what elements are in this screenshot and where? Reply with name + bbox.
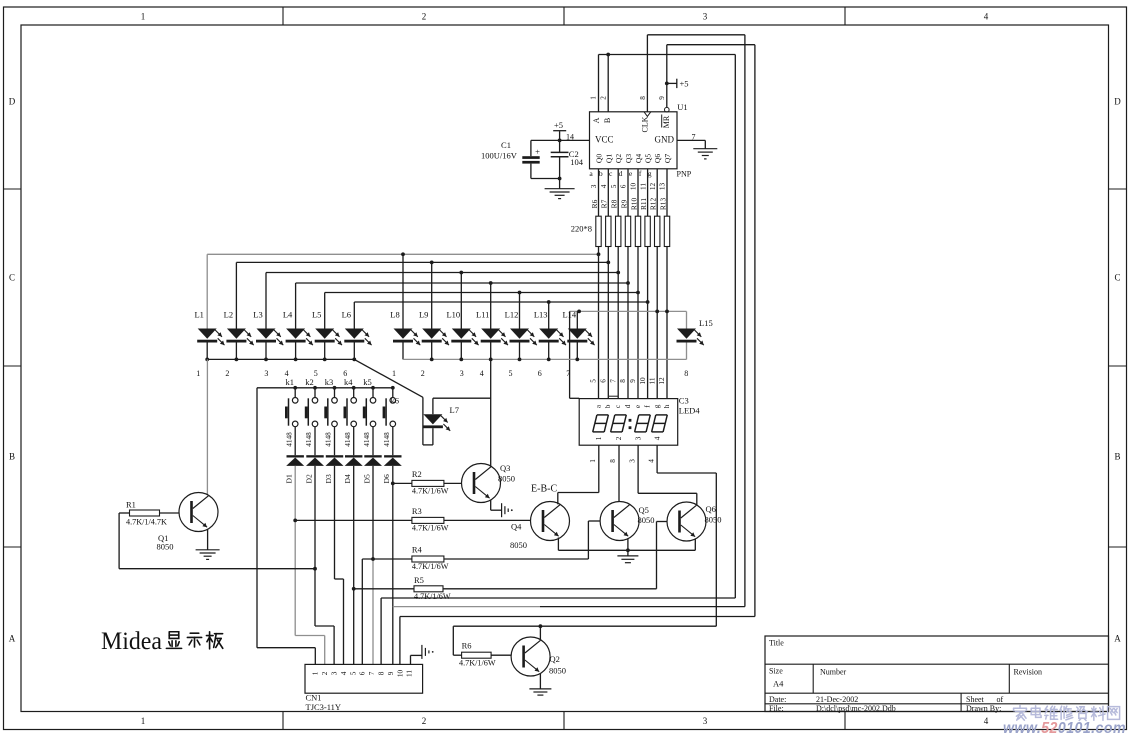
svg-text:U1: U1 <box>677 102 687 112</box>
wire net serial A-B top <box>599 54 736 56</box>
svg-text:8050: 8050 <box>705 514 722 524</box>
junction ground C1 C2 <box>558 177 562 181</box>
wire Q1 emitter to ground <box>207 529 209 550</box>
svg-text:4.7K/1/6W: 4.7K/1/6W <box>414 592 451 601</box>
op-amp U1 shift-register box <box>590 112 678 169</box>
switch k4 <box>344 377 357 455</box>
svg-text:10: 10 <box>630 183 638 191</box>
svg-text:2: 2 <box>321 671 329 675</box>
svg-text:R8: R8 <box>610 199 619 208</box>
diode D2 4148 <box>304 432 324 484</box>
LED L2 <box>224 262 254 359</box>
wire right vertical CLK to pin9 line <box>744 35 746 607</box>
svg-text:3: 3 <box>264 369 268 378</box>
svg-text:2: 2 <box>421 369 425 378</box>
wire display pin1 to Q4 collector <box>598 445 600 492</box>
svg-text:L8: L8 <box>390 310 399 320</box>
svg-text:Q2: Q2 <box>614 154 623 163</box>
diode D6 4148 <box>382 432 402 484</box>
svg-text:6: 6 <box>620 184 628 188</box>
wire segment net b horizontal <box>236 261 608 263</box>
svg-text:R6: R6 <box>462 641 472 651</box>
svg-text:9: 9 <box>387 671 395 675</box>
power +5 at MR <box>665 82 669 86</box>
svg-text:of: of <box>997 695 1004 704</box>
wire segment net e horizontal <box>325 292 638 294</box>
LED L15 <box>677 311 713 359</box>
junction Q2 collector <box>539 624 543 628</box>
svg-text:c: c <box>614 405 622 408</box>
svg-text:Q3: Q3 <box>624 154 633 163</box>
svg-text:Q6: Q6 <box>653 154 662 163</box>
svg-text:4.7K/1/6W: 4.7K/1/6W <box>459 659 496 668</box>
wire display pin4 long route <box>656 445 658 473</box>
wire segment net g-h horizontal line7 <box>570 310 687 312</box>
LED L1 <box>194 254 224 359</box>
LED L13 <box>534 302 566 359</box>
display digit 8 third <box>639 414 651 416</box>
transistor Q1 <box>157 493 219 552</box>
svg-text:2: 2 <box>422 716 427 726</box>
wire display pin3 to Q6 collector <box>637 445 639 493</box>
svg-text:4.7K/1/6W: 4.7K/1/6W <box>412 487 449 496</box>
svg-text:Q4: Q4 <box>511 522 522 532</box>
switch k2 <box>305 377 318 455</box>
svg-text:4148: 4148 <box>325 432 333 447</box>
svg-text:A: A <box>9 634 16 644</box>
svg-text:Q0: Q0 <box>595 154 604 163</box>
wire emitter bus Q4 Q5 Q6 <box>557 538 559 551</box>
svg-text:8: 8 <box>684 369 688 378</box>
svg-text:k2: k2 <box>305 377 314 387</box>
svg-text:R6: R6 <box>590 199 599 208</box>
svg-text:Q2: Q2 <box>550 654 560 664</box>
wire R3 to Q4 base <box>444 519 531 521</box>
svg-text:3: 3 <box>330 671 338 675</box>
wire VCC to U1 pin 14 <box>531 139 590 141</box>
LED L6 <box>342 302 372 359</box>
svg-text:R11: R11 <box>639 198 648 210</box>
junction R1 line at D2 <box>313 567 317 571</box>
svg-text:8: 8 <box>619 379 627 383</box>
wire D3 to CN1 pin 4 <box>334 466 336 579</box>
svg-text:CLK: CLK <box>641 116 650 132</box>
wire D4 net to R5 <box>354 588 414 590</box>
wire net CN1 pin9 to U1 CLK <box>393 606 540 608</box>
svg-text:Q5: Q5 <box>639 505 649 515</box>
svg-text:1: 1 <box>590 96 598 100</box>
svg-text:6: 6 <box>599 379 607 383</box>
svg-text:R10: R10 <box>629 198 638 211</box>
svg-text:4.7K/1/6W: 4.7K/1/6W <box>412 524 449 533</box>
svg-text:5: 5 <box>509 369 513 378</box>
LED L3 <box>253 273 283 360</box>
svg-text:L5: L5 <box>312 310 321 320</box>
wires resistor network down to display segment pins <box>598 247 600 399</box>
switch k3 <box>324 377 337 455</box>
LED L10 <box>446 273 478 360</box>
svg-text:1: 1 <box>196 369 200 378</box>
svg-text:21-Dec-2002: 21-Dec-2002 <box>816 695 858 704</box>
svg-text:8050: 8050 <box>510 540 527 550</box>
ground symbol at CN1 pin 11 sideways <box>421 645 423 659</box>
svg-text:L12: L12 <box>505 310 519 320</box>
display digit 8 fourth <box>656 414 668 416</box>
transistor Q2 <box>511 637 566 676</box>
svg-text:B: B <box>1114 452 1120 462</box>
svg-text:k3: k3 <box>325 377 334 387</box>
svg-text:Q4: Q4 <box>634 154 643 163</box>
svg-text:Q1: Q1 <box>604 154 613 163</box>
svg-text:L13: L13 <box>534 310 548 320</box>
svg-text:2: 2 <box>600 96 608 100</box>
svg-text:2: 2 <box>225 369 229 378</box>
wire diagonal group1 bus to L7 cathode <box>354 359 423 397</box>
svg-text:L2: L2 <box>224 310 233 320</box>
wire R4 left to CN1 pin 6 <box>362 558 412 560</box>
wire R1 to Q1 base <box>160 512 180 514</box>
svg-text:L3: L3 <box>253 310 262 320</box>
svg-text:4148: 4148 <box>363 432 371 447</box>
wire net CN1 pin10 to U1 MR <box>400 616 755 618</box>
svg-text:L14: L14 <box>562 310 576 320</box>
wire right vertical A-B to pin8 line <box>734 55 736 599</box>
svg-text:6: 6 <box>359 671 367 675</box>
svg-text:D6: D6 <box>382 474 391 483</box>
svg-text:C: C <box>9 273 15 283</box>
svg-text:2: 2 <box>615 436 623 440</box>
svg-text:8050: 8050 <box>549 666 566 676</box>
wire R1 left to D2 net <box>119 512 129 514</box>
svg-text:www.520101.com: www.520101.com <box>1003 720 1126 736</box>
svg-text:D2: D2 <box>304 474 313 483</box>
wire switch common bus <box>257 387 393 389</box>
svg-text:g: g <box>648 169 652 178</box>
display digit 8 first <box>597 414 609 416</box>
wire U1 GND pin 7 <box>677 139 705 141</box>
svg-text:1: 1 <box>595 436 603 440</box>
svg-text:3: 3 <box>460 369 464 378</box>
svg-text:3: 3 <box>634 436 642 440</box>
svg-text:11: 11 <box>406 670 414 677</box>
diode D4 4148 <box>343 432 363 484</box>
LED L14 <box>562 310 594 360</box>
wire D2 to CN1 pin 3 <box>314 466 316 626</box>
svg-text:+5: +5 <box>554 120 563 130</box>
svg-text:4.7K/1/6W: 4.7K/1/6W <box>412 562 449 571</box>
svg-text:Q3: Q3 <box>500 463 510 473</box>
svg-text:Q7: Q7 <box>663 154 672 163</box>
wire Q2 collector up <box>539 626 541 639</box>
title block frame <box>765 636 1109 712</box>
svg-text:4: 4 <box>984 12 989 22</box>
svg-text:12: 12 <box>649 183 657 191</box>
svg-text:1: 1 <box>141 716 146 726</box>
wire D1 to CN1 pin 2 <box>294 466 296 636</box>
svg-text:4: 4 <box>647 459 655 463</box>
svg-text:Midea: Midea <box>101 628 162 655</box>
svg-text:5: 5 <box>349 671 357 675</box>
wire right vertical MR to pin10 line <box>754 45 756 617</box>
power +5 at VCC <box>559 131 561 140</box>
diode D1 4148 <box>285 432 305 484</box>
wire net CLK top <box>647 34 745 36</box>
svg-text:11: 11 <box>639 183 647 190</box>
switch k1 <box>285 377 298 455</box>
svg-text:L10: L10 <box>446 310 460 320</box>
wire D5 to CN1 pin 7 <box>372 466 374 559</box>
display colon <box>629 419 632 422</box>
svg-text:5: 5 <box>590 379 598 383</box>
svg-text:4: 4 <box>340 671 348 675</box>
svg-text:6: 6 <box>538 369 542 378</box>
U1 CLK edge mark <box>644 112 651 117</box>
svg-text:D3: D3 <box>324 474 333 483</box>
wires U1 outputs to resistor network <box>598 169 600 216</box>
svg-text:8: 8 <box>639 96 647 100</box>
svg-text:R13: R13 <box>658 198 667 211</box>
svg-text:b: b <box>604 404 612 408</box>
capacitor C2 <box>559 140 561 152</box>
wire net MR top <box>667 44 755 46</box>
svg-text:11: 11 <box>648 377 656 384</box>
connector CN1 box <box>305 664 423 693</box>
junction R2 at D6 <box>391 482 395 486</box>
wire R4 to Q5 base <box>444 558 589 560</box>
transistor Q6 <box>667 502 722 541</box>
svg-text:C1: C1 <box>501 140 511 150</box>
ground symbol below C2 <box>559 179 561 189</box>
svg-text:12: 12 <box>658 377 666 385</box>
switch k6 <box>383 388 399 455</box>
svg-text:k5: k5 <box>363 377 372 387</box>
svg-text:B: B <box>9 452 15 462</box>
resistor network R6-R13 bodies <box>596 216 601 246</box>
svg-text:D5: D5 <box>362 474 371 483</box>
svg-text:+: + <box>535 147 540 157</box>
svg-text:4148: 4148 <box>285 432 293 447</box>
svg-text:d: d <box>619 169 623 178</box>
svg-text:B: B <box>603 118 612 123</box>
LED L11 <box>476 283 508 359</box>
svg-text:LED4: LED4 <box>679 406 701 416</box>
svg-text:k4: k4 <box>344 377 353 387</box>
svg-text:4: 4 <box>653 436 661 440</box>
svg-text:4.7K/1/4.7K: 4.7K/1/4.7K <box>126 518 167 527</box>
svg-text:Q5: Q5 <box>644 154 653 163</box>
wire switch bus down to CN1 pin 1 <box>256 388 258 648</box>
svg-text:3: 3 <box>703 716 708 726</box>
svg-text:A4: A4 <box>773 679 784 689</box>
border column ticks top <box>282 7 284 25</box>
LED L5 <box>312 293 342 360</box>
junction R3 at D1 <box>293 519 297 523</box>
wire R2 to Q3 base <box>444 482 462 484</box>
svg-text:R9: R9 <box>619 199 628 208</box>
wire L7 anode to Q3 collector line <box>433 397 491 399</box>
wire R6 to Q2 base <box>491 654 511 656</box>
junction R5 at D4 <box>352 587 356 591</box>
svg-text:7: 7 <box>566 369 570 378</box>
wire group2 bus to Q3 collector <box>490 359 492 466</box>
svg-text:5: 5 <box>610 184 618 188</box>
svg-text:Size: Size <box>769 667 783 676</box>
svg-text:4: 4 <box>600 184 608 188</box>
ground symbol at Q1 <box>196 549 220 551</box>
LED L7 <box>423 398 459 445</box>
text Midea display board title <box>101 628 223 655</box>
svg-text:MR: MR <box>662 115 671 128</box>
display digit 8 second <box>615 414 627 416</box>
svg-text:Sheet: Sheet <box>966 695 985 704</box>
svg-text:3: 3 <box>628 459 636 463</box>
wire D4 to CN1 pin 5 <box>353 466 355 665</box>
svg-text:4148: 4148 <box>344 432 352 447</box>
resistor R4 <box>412 545 449 572</box>
wire segment net f horizontal <box>354 301 647 303</box>
svg-text:8050: 8050 <box>498 474 515 484</box>
svg-text:PNP: PNP <box>677 170 692 179</box>
resistor R5 <box>414 575 451 601</box>
display tick near top <box>609 395 618 397</box>
diode D5 4148 <box>362 432 382 484</box>
svg-text:A: A <box>1114 634 1121 644</box>
wire segment net a horizontal <box>207 253 598 255</box>
resistor R6 <box>459 641 496 668</box>
svg-text:D1: D1 <box>285 474 294 483</box>
svg-text:3: 3 <box>590 184 598 188</box>
svg-text:1: 1 <box>141 12 146 22</box>
svg-text:D:\dcl\psd\mc-2002.Ddb: D:\dcl\psd\mc-2002.Ddb <box>816 704 896 713</box>
svg-text:A: A <box>592 117 601 123</box>
svg-text:Q6: Q6 <box>706 504 716 514</box>
junction C2 top <box>558 139 562 143</box>
LED L4 <box>283 283 313 359</box>
svg-text:L15: L15 <box>699 318 713 328</box>
svg-text:e: e <box>634 405 642 408</box>
border row ticks left <box>4 188 22 190</box>
svg-text:D: D <box>9 97 16 107</box>
svg-text:L9: L9 <box>419 310 428 320</box>
svg-text:k1: k1 <box>285 377 294 387</box>
svg-text:R7: R7 <box>600 199 609 208</box>
resistor R3 <box>412 506 449 533</box>
resistor R1 <box>126 500 167 527</box>
wire group2 cathode bus <box>403 358 687 360</box>
svg-text:D4: D4 <box>343 474 352 483</box>
svg-text:Number: Number <box>820 668 847 677</box>
svg-text:L4: L4 <box>283 310 293 320</box>
svg-text:L6: L6 <box>342 310 351 320</box>
capacitor C1 electrolytic <box>530 140 532 156</box>
svg-text:9: 9 <box>629 379 637 383</box>
wire D6 to R2 <box>393 482 412 484</box>
svg-text:7: 7 <box>609 379 617 383</box>
junction R4 at D5 <box>371 557 375 561</box>
wire group1 cathode bus <box>207 358 354 360</box>
svg-text:L11: L11 <box>476 310 489 320</box>
svg-text:8: 8 <box>609 459 617 463</box>
CN1 pin 11 to ground <box>410 655 412 664</box>
svg-text:C: C <box>1114 273 1120 283</box>
svg-text:L7: L7 <box>450 405 459 415</box>
svg-text:8050: 8050 <box>157 541 174 551</box>
wire group1 bus to Q1 collector <box>206 359 208 494</box>
transistor Q4 <box>510 502 570 551</box>
watermark chinese characters <box>1014 705 1120 720</box>
svg-text:3: 3 <box>703 12 708 22</box>
svg-text:1: 1 <box>589 459 597 463</box>
svg-text:8050: 8050 <box>638 515 655 525</box>
svg-text:k6: k6 <box>391 395 400 405</box>
LED L12 <box>505 293 537 360</box>
diode D3 4148 <box>324 432 344 484</box>
svg-text:g: g <box>653 404 661 408</box>
wire segment net c horizontal <box>266 272 618 274</box>
display C3 LED4 box <box>579 399 678 446</box>
svg-text:1: 1 <box>392 369 396 378</box>
border row ticks right <box>1109 188 1127 190</box>
wire D1 net to R3 <box>295 519 412 521</box>
svg-text:10: 10 <box>396 670 404 678</box>
LED L8 <box>390 254 420 359</box>
svg-text:5: 5 <box>314 369 318 378</box>
svg-text:Drawn By:: Drawn By: <box>966 704 1001 713</box>
svg-text:d: d <box>624 404 632 408</box>
svg-text:4: 4 <box>480 369 484 378</box>
LED L9 <box>419 262 449 359</box>
junction pin B <box>606 53 610 57</box>
wire C1 to ground junction <box>531 178 560 180</box>
transistor Q5 <box>600 502 654 541</box>
svg-text:b: b <box>599 169 603 178</box>
svg-text:7: 7 <box>368 671 376 675</box>
border column ticks bottom <box>282 712 284 730</box>
switch k5 <box>363 377 376 455</box>
wire line7 drop to display corner <box>569 311 571 398</box>
U1 MR inversion bubble <box>665 107 670 112</box>
resistor R2 <box>412 469 449 496</box>
svg-text:GND: GND <box>655 134 675 144</box>
svg-text:4148: 4148 <box>383 432 391 447</box>
svg-text:1: 1 <box>312 671 320 675</box>
svg-text:10: 10 <box>639 377 647 385</box>
svg-text:TJC3-11Y: TJC3-11Y <box>306 702 342 712</box>
wire display pin2 to Q5 collector <box>618 445 620 501</box>
svg-text:8: 8 <box>377 671 385 675</box>
ground symbol at U1 pin 7 <box>693 148 717 150</box>
svg-text:D: D <box>1114 97 1121 107</box>
wire Q2 emitter to ground <box>539 674 541 689</box>
svg-text:220*8: 220*8 <box>571 224 592 234</box>
wire D6 to CN1 pin 9 <box>392 466 394 665</box>
junction emitter ground <box>626 548 630 552</box>
ground symbol at Q3 sideways <box>501 503 503 517</box>
svg-text:+5: +5 <box>680 79 689 89</box>
svg-text:9: 9 <box>658 96 666 100</box>
svg-text:C3: C3 <box>679 396 689 406</box>
wire digit4 net R6 Q2 <box>453 625 716 627</box>
transistor Q3 <box>462 463 516 503</box>
svg-text:R12: R12 <box>649 198 658 211</box>
svg-text:E-B-C: E-B-C <box>531 484 557 495</box>
svg-text:Title: Title <box>769 639 784 648</box>
svg-text:VCC: VCC <box>595 134 614 144</box>
ground symbol at Q5 emitter bus <box>627 550 629 556</box>
svg-text:R4: R4 <box>412 545 423 555</box>
wire net CN1 pin8 to U1 A-B <box>381 597 735 599</box>
svg-text:4148: 4148 <box>305 432 313 447</box>
